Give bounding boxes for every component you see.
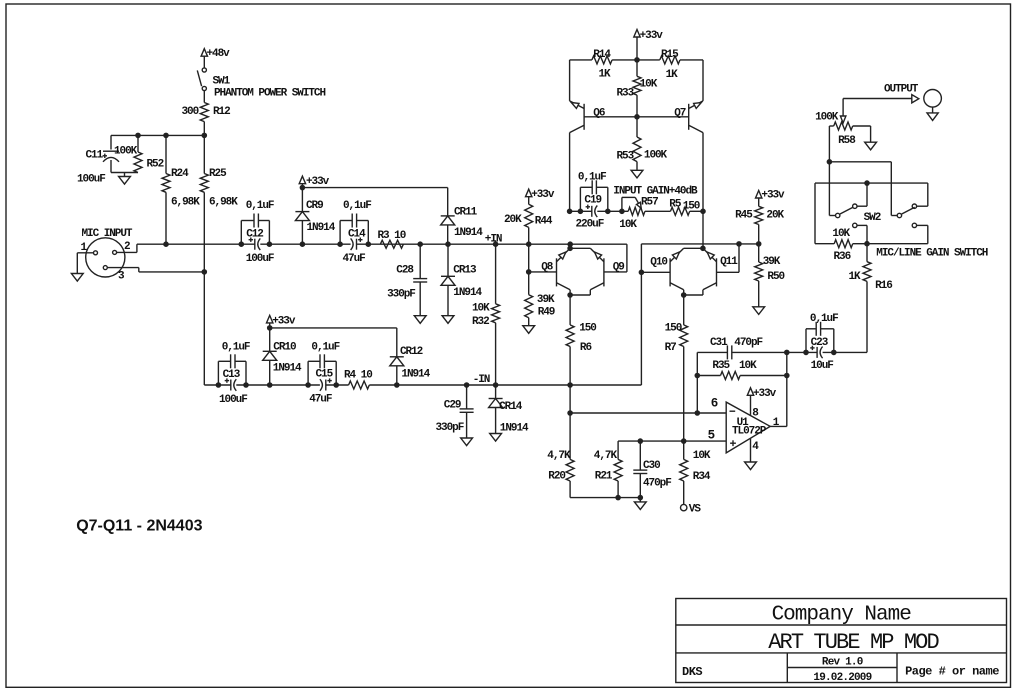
svg-text:PHANTOM POWER SWITCH: PHANTOM POWER SWITCH [214,87,325,99]
svg-text:R44: R44 [535,215,553,227]
svg-text:1N914: 1N914 [273,362,302,374]
svg-text:R32: R32 [472,316,489,328]
svg-text:5: 5 [708,428,715,442]
svg-text:OUTPUT: OUTPUT [884,83,919,95]
svg-text:1K: 1K [849,271,862,283]
svg-text:R16: R16 [875,280,892,292]
svg-text:20K: 20K [766,209,784,221]
svg-text:R12: R12 [213,106,230,118]
svg-text:1N914: 1N914 [307,222,336,234]
svg-text:+33v: +33v [753,388,777,400]
svg-text:CR12: CR12 [400,346,423,358]
svg-text:4: 4 [752,441,759,453]
svg-text:C28: C28 [396,264,414,276]
svg-text:4,7K: 4,7K [547,450,571,462]
svg-text:R45: R45 [735,209,753,221]
svg-text:0,1uF: 0,1uF [246,200,274,212]
svg-text:1K: 1K [599,69,612,81]
svg-text:C23: C23 [811,337,829,349]
svg-text:+33v: +33v [272,315,296,327]
svg-text:C29: C29 [444,400,461,412]
svg-text:100K: 100K [815,112,839,124]
svg-text:Rev 1.0: Rev 1.0 [822,657,863,669]
svg-text:1N914: 1N914 [500,423,529,435]
svg-text:100uF: 100uF [246,253,274,265]
svg-text:R33: R33 [617,88,635,100]
svg-text:0,1uF: 0,1uF [222,342,250,354]
svg-text:Q10: Q10 [650,257,667,269]
svg-text:8: 8 [752,408,759,420]
svg-text:R7: R7 [665,342,677,354]
svg-text:1N914: 1N914 [453,287,482,299]
svg-text:R58: R58 [838,135,856,147]
svg-text:C19: C19 [584,194,601,206]
svg-text:10uF: 10uF [811,360,834,372]
svg-text:R20: R20 [548,471,565,483]
svg-text:10K: 10K [693,450,711,462]
svg-text:Q8: Q8 [541,262,554,274]
svg-text:47uF: 47uF [309,393,332,405]
svg-text:330pF: 330pF [436,422,464,434]
svg-text:R15: R15 [661,49,679,61]
svg-text:6: 6 [711,397,718,411]
svg-text:470pF: 470pF [734,337,762,349]
svg-text:SW1: SW1 [213,75,231,87]
svg-text:R6: R6 [580,342,592,354]
svg-text:39K: 39K [763,256,781,268]
svg-text:0,1uF: 0,1uF [343,200,371,212]
svg-text:VS: VS [689,504,702,516]
svg-text:CR9: CR9 [306,200,323,212]
svg-text:2: 2 [124,241,130,253]
svg-text:1: 1 [773,417,780,429]
svg-text:3: 3 [118,271,125,283]
svg-text:0,1uF: 0,1uF [578,172,606,184]
svg-text:1N914: 1N914 [454,227,483,239]
svg-text:R25: R25 [209,168,227,180]
svg-text:20K: 20K [504,214,522,226]
svg-text:10K: 10K [739,360,757,372]
svg-text:10K: 10K [640,79,658,91]
svg-text:R49: R49 [538,307,555,319]
svg-text:330pF: 330pF [387,289,415,301]
svg-text:47uF: 47uF [343,253,366,265]
svg-text:C30: C30 [643,460,660,472]
svg-text:+33v: +33v [761,189,785,201]
svg-text:39K: 39K [537,294,555,306]
svg-text:6,98K: 6,98K [209,196,238,208]
svg-text:10K: 10K [472,302,490,314]
svg-text:Q11: Q11 [720,256,738,268]
svg-text:R21: R21 [595,471,613,483]
svg-text:C11: C11 [86,149,104,161]
svg-text:ART TUBE MP MOD: ART TUBE MP MOD [768,630,939,655]
svg-text:R50: R50 [767,271,784,283]
svg-text:0,1uF: 0,1uF [311,342,339,354]
svg-text:100uF: 100uF [219,394,247,406]
svg-text:+33v: +33v [640,30,664,42]
svg-text:+48v: +48v [207,48,231,60]
svg-text:R57: R57 [641,196,658,208]
svg-text:C13: C13 [223,369,241,381]
svg-text:4,7K: 4,7K [594,450,618,462]
svg-text:R35: R35 [712,360,730,372]
svg-text:+IN: +IN [485,234,502,246]
svg-text:MIC INPUT: MIC INPUT [82,228,133,240]
svg-text:Q9: Q9 [613,262,625,274]
svg-text:+33v: +33v [306,176,330,188]
svg-text:10K: 10K [619,219,637,231]
svg-text:1N914: 1N914 [401,369,430,381]
svg-text:R34: R34 [693,471,711,483]
svg-text:150: 150 [683,200,700,212]
svg-text:Page # or name: Page # or name [905,664,999,678]
svg-text:150: 150 [579,323,596,335]
svg-text:CR10: CR10 [273,342,296,354]
svg-text:+33v: +33v [531,189,555,201]
svg-text:-IN: -IN [473,374,490,386]
svg-text:6,98K: 6,98K [171,196,200,208]
svg-text:R52: R52 [147,159,164,171]
svg-text:R36: R36 [834,251,851,263]
svg-text:R4 10: R4 10 [344,369,372,381]
svg-text:MIC/LINE GAIN SWITCH: MIC/LINE GAIN SWITCH [876,248,987,260]
svg-text:Q7: Q7 [674,107,686,119]
svg-text:300: 300 [182,106,199,118]
svg-text:220uF: 220uF [576,219,604,231]
svg-text:CR14: CR14 [499,401,523,413]
svg-text:100K: 100K [114,145,138,157]
svg-text:DKS: DKS [682,665,702,679]
svg-text:19.02.2009: 19.02.2009 [813,672,871,684]
svg-text:R53: R53 [617,151,635,163]
svg-text:SW2: SW2 [864,212,881,224]
svg-text:0,1uF: 0,1uF [810,313,838,325]
svg-text:R3 10: R3 10 [378,230,406,242]
svg-text:10K: 10K [832,228,850,240]
svg-text:Q7-Q11 - 2N4403: Q7-Q11 - 2N4403 [76,518,202,535]
svg-text:CR13: CR13 [453,264,477,276]
svg-text:150: 150 [665,323,682,335]
svg-text:R14: R14 [593,49,611,61]
svg-text:R24: R24 [171,168,189,180]
svg-text:100uF: 100uF [77,174,105,186]
svg-text:Q6: Q6 [593,107,605,119]
svg-text:1K: 1K [666,69,679,81]
svg-text:C15: C15 [316,369,334,381]
svg-text:TL072P: TL072P [732,425,767,437]
svg-text:100K: 100K [644,149,668,161]
svg-text:Company Name: Company Name [772,604,912,627]
svg-text:R5: R5 [669,198,682,210]
svg-text:470pF: 470pF [643,478,671,490]
svg-text:CR11: CR11 [454,207,478,219]
svg-text:C31: C31 [710,337,728,349]
